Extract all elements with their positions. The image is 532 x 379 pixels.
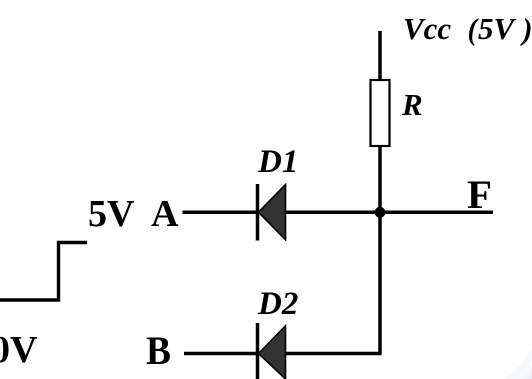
svg-text:D1: D1	[257, 144, 298, 180]
watermark glow bottom-right	[503, 348, 532, 379]
diode D2	[258, 323, 286, 379]
svg-text:R: R	[401, 87, 423, 122]
diode D1	[258, 184, 286, 241]
wire Vcc to resistor	[378, 31, 382, 81]
svg-text:Vcc(5V): Vcc(5V)	[403, 11, 532, 47]
svg-text:5V: 5V	[88, 193, 135, 235]
svg-text:A: A	[151, 193, 179, 235]
node junction	[375, 207, 386, 218]
svg-text:0V: 0V	[0, 329, 38, 371]
resistor R	[371, 80, 390, 146]
wire B branch	[184, 352, 382, 356]
signal waveform step	[0, 243, 87, 301]
svg-text:B: B	[146, 328, 171, 373]
svg-text:D2: D2	[257, 286, 298, 322]
wire resistor to lower branch	[378, 146, 382, 354]
wire A to F	[183, 210, 494, 214]
svg-text:F: F	[467, 172, 492, 217]
